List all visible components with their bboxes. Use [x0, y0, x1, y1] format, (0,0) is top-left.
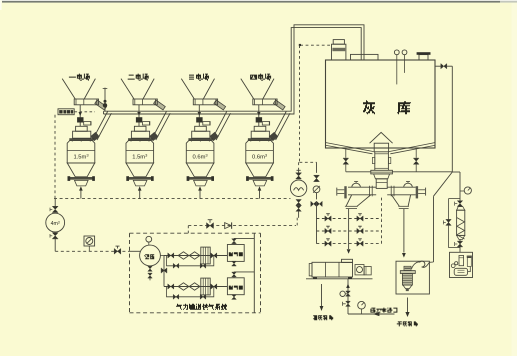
- standpipe with ball valve 1: [104, 88, 106, 112]
- dome valve 1: [77, 117, 83, 122]
- air receiver tank 2 储气罐: [227, 278, 244, 295]
- instrument air dashed drop: [299, 45, 301, 162]
- tank dome 2: [134, 126, 146, 131]
- lower bypass loop: [167, 287, 214, 297]
- silo hopper slope right: [389, 143, 435, 152]
- level gauge box: [58, 109, 74, 115]
- roof vent stack: [419, 55, 428, 60]
- upper branch filter 1: [178, 252, 189, 259]
- pump discharge elbow: [468, 267, 471, 272]
- label 三电场 (ESP field 3): [189, 74, 209, 81]
- ESP hopper funnel 1: [62, 79, 75, 99]
- discharge flap valve 3: [214, 100, 226, 110]
- dashed vent line on roof: [300, 44, 331, 46]
- aeration valve at (328,243.6): [325, 241, 331, 246]
- outlet flange 3: [188, 177, 213, 180]
- water flow indicator: [340, 291, 345, 296]
- aeration valve at (328,218.5): [325, 216, 331, 221]
- filter top valve: [459, 191, 461, 201]
- plant air dashed line: [188, 225, 296, 227]
- manifold right end flange: [416, 186, 418, 198]
- discharge flap valve 2: [154, 100, 166, 110]
- pump box side rect: [467, 258, 471, 267]
- mixer base: [306, 278, 373, 280]
- conveying header pipe (double line): [104, 25, 365, 114]
- lower branch filter 1: [178, 283, 189, 290]
- rotary feeder 2: [133, 99, 157, 105]
- aeration dashed row 3: [317, 243, 382, 245]
- silo relief valve line: [435, 65, 441, 67]
- safety valve pair: [311, 201, 317, 206]
- conveying riser pipe 3: [213, 112, 227, 139]
- manifold center block: [376, 179, 387, 189]
- conveying riser pipe 1: [93, 112, 107, 139]
- roots blower: [290, 180, 306, 196]
- water inlet arrow: [373, 312, 380, 316]
- ESP hopper funnel 2: [121, 79, 134, 99]
- dashed drop line left: [54, 115, 56, 198]
- dome valve actuator left: [352, 183, 361, 187]
- upper bypass loop: [167, 256, 214, 266]
- compressor drain valves: [148, 266, 152, 271]
- silo right downpipe: [451, 66, 453, 172]
- tank dome 3: [195, 126, 207, 131]
- upper branch valve: [168, 253, 174, 258]
- left discharge chute: [346, 195, 352, 206]
- isolating valve on blower line: [298, 170, 300, 173]
- buffer tank bottom valve: [52, 233, 58, 239]
- sending tank body 1: [67, 141, 95, 163]
- fluidizing cone hat: [370, 132, 393, 143]
- conveying inlet valve 1: [91, 132, 99, 140]
- discharge arrow 4: [259, 189, 261, 199]
- outlet cup 3: [194, 180, 208, 186]
- upper branch line: [164, 255, 227, 257]
- sending tank body 2: [126, 141, 154, 163]
- conveying riser pipe 4: [272, 112, 286, 139]
- top grey border line: [0, 0, 517, 1]
- silo aeration valve left: [345, 148, 347, 158]
- tank top flange 2: [128, 138, 153, 140]
- dashed line gauge to inlet: [75, 111, 96, 113]
- outlet flange 1: [69, 177, 94, 180]
- bypass valve: [446, 219, 451, 225]
- pressure regulator: [316, 162, 318, 173]
- blower outlet valves: [296, 200, 301, 206]
- label 一电场 (ESP field 1): [69, 74, 90, 81]
- filter bottom valve: [459, 240, 461, 241]
- fluidizing air dashed main: [54, 198, 291, 200]
- tank cone 4: [246, 163, 274, 177]
- label 压力水进口: [370, 308, 397, 313]
- outlet cup 2: [133, 180, 147, 186]
- level indicator B: [402, 50, 407, 55]
- rotary feeder 1: [74, 99, 98, 105]
- tank2 drain: [232, 295, 237, 300]
- ash silo shell 灰库: [326, 60, 436, 148]
- discharge flap valve 4: [273, 100, 285, 110]
- silo hopper slope left: [326, 143, 374, 152]
- dashed link to air supply: [296, 218, 298, 226]
- outlet cup 1: [75, 180, 89, 186]
- lower branch line: [164, 286, 227, 288]
- ESP hopper funnel 3: [181, 79, 194, 99]
- coil filter vessel: [457, 207, 465, 211]
- wet ash mixer body: [312, 262, 353, 277]
- ESP hopper funnel 4: [241, 79, 254, 99]
- manifold pipe right: [387, 186, 416, 188]
- spout top flange: [400, 271, 415, 274]
- chute drop to loading spout: [403, 209, 405, 253]
- tank inlet pipe 3: [198, 105, 200, 118]
- branch riser: [163, 256, 165, 287]
- water riser to mixer: [347, 279, 349, 314]
- compressor intake: [148, 242, 150, 245]
- water valve 1: [346, 291, 351, 296]
- lower branch air dryer: [201, 278, 210, 295]
- tank top flange 1: [69, 138, 94, 140]
- aeration header line: [346, 171, 371, 173]
- discharge arrow 2: [139, 189, 141, 199]
- tank2 top valve: [233, 277, 235, 278]
- side nozzle 1: [84, 122, 91, 125]
- buffer tank 4m3: [46, 213, 65, 232]
- tank top flange 3: [188, 138, 213, 140]
- check valve on plant air: [225, 223, 232, 229]
- tank inlet pipe 2: [138, 105, 140, 118]
- buffer tank top valve: [54, 199, 56, 207]
- air receiver tank 1 储气罐: [227, 245, 244, 262]
- slant line to spout vent: [434, 172, 453, 196]
- conveying riser pipe 2: [152, 112, 166, 139]
- outlet flange 2: [128, 177, 153, 180]
- water valve 2: [346, 301, 351, 306]
- tank dome 1: [76, 126, 88, 131]
- water pressure gauge: [358, 301, 366, 309]
- air compressor: [130, 250, 141, 252]
- telescopic spout bellows: [402, 274, 412, 286]
- upper branch filter 2: [189, 252, 200, 259]
- vacuum pump box: [450, 252, 473, 277]
- lower branch valve: [168, 284, 174, 289]
- rotary feeder 4: [253, 99, 277, 105]
- tank top flange 4: [248, 138, 273, 140]
- wide flange plate: [371, 170, 393, 174]
- wet ash outlet arrow: [321, 284, 323, 306]
- label 湿灰装车: [313, 315, 333, 320]
- dome valve actuator right: [404, 183, 413, 187]
- dome valve 4: [256, 117, 262, 122]
- loading spout box: [396, 261, 429, 294]
- tank inlet pipe 4: [258, 105, 260, 118]
- water supply line: [348, 313, 395, 315]
- right discharge chute: [392, 195, 400, 206]
- manifold left end flange: [344, 186, 346, 198]
- globe valve on plant air: [207, 223, 214, 229]
- mixer drive gear: [355, 265, 364, 275]
- outlet cup 4: [253, 180, 267, 186]
- aeration valve at (328,231): [325, 228, 331, 233]
- upper branch outlet valve: [211, 253, 217, 258]
- conveying inlet valve 4: [269, 132, 277, 140]
- aeration valve at (360,231): [357, 228, 363, 233]
- tank cone 3: [186, 163, 214, 177]
- side nozzle 4: [262, 122, 269, 125]
- sending tank body 4: [246, 141, 274, 163]
- level indicator A: [394, 50, 399, 55]
- silo label 灰库: [363, 100, 375, 114]
- label 四电场 (ESP field 4): [250, 74, 271, 81]
- dome valve 3: [196, 117, 202, 122]
- side nozzle 3: [203, 122, 210, 125]
- mixer feed box: [342, 259, 353, 262]
- outlet flange 4: [248, 177, 273, 180]
- manifold pipe left: [348, 186, 376, 188]
- aeration dashed row 1: [317, 218, 382, 220]
- air collector line: [253, 233, 255, 312]
- tank dome 4: [254, 126, 266, 131]
- roof bag filter: [332, 44, 346, 60]
- pressure gauge top right: [464, 187, 471, 194]
- pump inlet ports: [451, 264, 455, 268]
- tank1 top valve: [233, 243, 235, 244]
- compressor outlet: [160, 255, 166, 257]
- side nozzle 2: [143, 122, 150, 125]
- lower branch filter 2: [189, 283, 200, 290]
- aeration valve at (360,243.6): [357, 241, 363, 246]
- spout actuator: [404, 266, 411, 270]
- inline instrument box: [84, 236, 95, 246]
- tank1 drain: [232, 261, 237, 266]
- tank inlet pipe 1: [79, 105, 81, 118]
- filter bypass line: [449, 198, 461, 200]
- label 干灰装车: [397, 321, 418, 326]
- spout cone: [403, 285, 412, 289]
- dome valve 2: [136, 117, 142, 122]
- dashed branch to regulator: [300, 161, 317, 163]
- dashed riser between chutes: [381, 198, 383, 244]
- dry ash outlet arrow: [407, 298, 409, 313]
- line silo to filter: [452, 171, 460, 173]
- air system inlet valve: [114, 249, 121, 255]
- lower branch outlet valve: [211, 284, 217, 289]
- label 二电场 (ESP field 2): [128, 74, 149, 81]
- mixer left end cap: [309, 264, 312, 276]
- air supply system boundary: [130, 232, 261, 234]
- aeration valve at (360,218.5): [357, 216, 363, 221]
- tank cone 2: [126, 163, 154, 177]
- sending tank body 3: [186, 141, 214, 163]
- upper branch air dryer: [201, 247, 210, 264]
- spout vent hose: [412, 261, 430, 269]
- vacuum pump unit: [454, 268, 467, 275]
- discharge flap valve 1: [95, 100, 107, 110]
- air system label 气力输送供气系统: [176, 304, 227, 310]
- conveying inlet valve 2: [150, 132, 158, 140]
- discharge arrow 3: [199, 189, 201, 199]
- roof hatch: [351, 54, 379, 60]
- tank cone 1: [67, 163, 95, 177]
- pump separator pot: [459, 256, 464, 266]
- discharge arrow 1: [80, 189, 82, 199]
- silo aeration valve right: [415, 148, 417, 158]
- dashed line to air system: [55, 250, 129, 252]
- left white edge: [0, 0, 2, 10]
- rotary feeder 3: [193, 99, 217, 105]
- discharge column: [374, 152, 376, 171]
- conveying inlet valve 3: [210, 132, 218, 140]
- column flange tabs: [372, 157, 374, 163]
- aeration dashed row 2: [317, 230, 382, 232]
- mixer motor: [364, 267, 371, 275]
- reducer: [374, 174, 390, 179]
- chute drop to mixer: [348, 209, 350, 249]
